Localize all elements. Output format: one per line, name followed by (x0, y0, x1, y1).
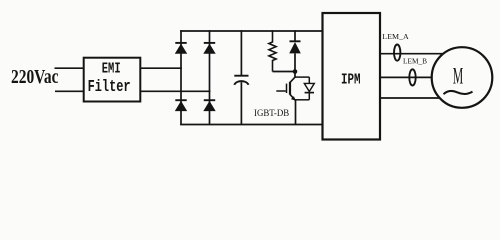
wire AC line bottom (source to EMI) (55, 90, 84, 92)
wire phase U (IPM to motor) (380, 53, 444, 55)
capacitor C1 (DC bus electrolytic) (234, 30, 248, 124)
wire DC- bottom rail (180, 124, 323, 126)
IPM module U2 (323, 13, 381, 140)
wire DC+ top rail (180, 30, 323, 32)
transistor Q1 (IGBT-DB brake chopper) (276, 72, 296, 125)
diode D3 (bridge lower-left) (175, 100, 187, 111)
diode D5 (parallel with brake resistor) (289, 30, 301, 71)
svg-text:EMI: EMI (102, 60, 121, 77)
motor AC tilde (444, 91, 473, 94)
diode D6 (IGBT anti-parallel) (295, 77, 314, 100)
diode D1 (bridge upper-left) (175, 43, 187, 54)
EMI filter box U1 (84, 58, 141, 102)
wire bridge left branch (180, 30, 182, 124)
resistor R1 (brake resistor) (269, 30, 276, 71)
motor M1 circle (432, 47, 493, 108)
svg-text:Filter: Filter (88, 78, 131, 97)
svg-text:IPM: IPM (341, 73, 361, 89)
wire phase V (IPM to motor) (380, 76, 436, 78)
current sensor LEM_A (394, 45, 400, 61)
wire AC line top (source to EMI) (55, 67, 85, 69)
wire bridge right branch (209, 30, 211, 124)
svg-text:220Vac: 220Vac (11, 67, 59, 88)
diode D4 (bridge lower-right) (203, 100, 215, 111)
wire phase W (IPM to motor) (380, 97, 442, 99)
current sensor LEM_B (409, 69, 415, 85)
diode D2 (bridge upper-right) (203, 43, 215, 54)
svg-text:IGBT-DB: IGBT-DB (254, 108, 289, 119)
wire EMI to bridge top (140, 67, 182, 69)
svg-text:M: M (453, 64, 464, 90)
svg-text:LEM_B: LEM_B (403, 56, 427, 65)
svg-text:LEM_A: LEM_A (382, 32, 409, 41)
wire EMI to bridge bottom (140, 90, 210, 92)
node junction dot (293, 69, 298, 74)
wire resistor bottom to node (273, 71, 296, 73)
